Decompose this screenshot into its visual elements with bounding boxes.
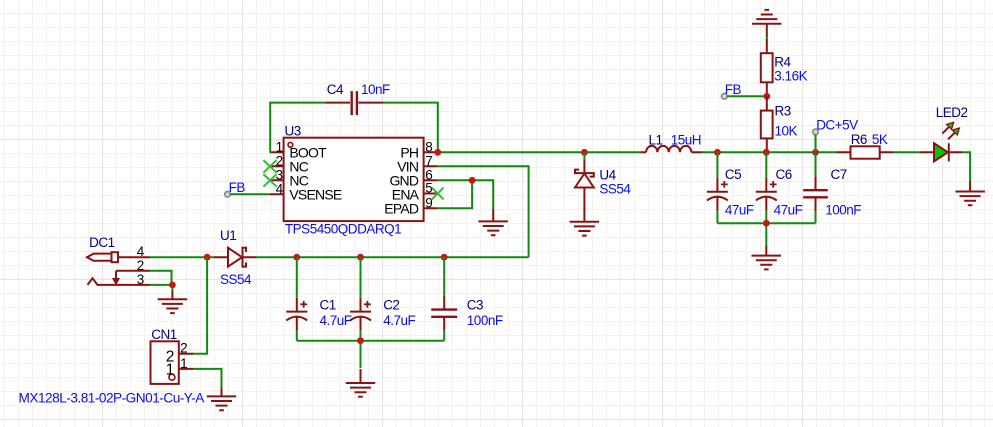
wire U4 to ground: [583, 152, 585, 160]
CN1 outer pin numbers: [180, 341, 187, 371]
wire DC1 pin2 down to pin3: [150, 271, 172, 285]
junction C5 top: [714, 149, 721, 156]
U3 right pin stubs 8,7,6,5,9: [424, 152, 438, 208]
wire FB to R4/R3 node: [727, 95, 767, 97]
junction R3 bottom output node: [763, 149, 770, 156]
wire DC1 pin3 to ground node: [150, 285, 172, 293]
svg-text:VSENSE: VSENSE: [289, 187, 341, 203]
inductor L1 leads: [641, 151, 702, 153]
capacitor C6 polarized: [756, 178, 777, 211]
R3 reference label: [775, 104, 791, 119]
wire ground to R4: [766, 36, 768, 41]
diode U1 schottky cathode: [243, 248, 247, 267]
svg-text:4.7uF: 4.7uF: [320, 313, 352, 328]
capacitor C6 wires: [765, 152, 767, 223]
wire C4 left loop to BOOT: [270, 103, 326, 153]
L1 value label: [671, 133, 701, 148]
capacitor C5 wires: [716, 152, 718, 223]
C7 reference label: [831, 167, 847, 182]
junction U4 top: [581, 149, 588, 156]
svg-text:DC+5V: DC+5V: [816, 117, 858, 132]
LED2 emission arrows: [942, 122, 959, 139]
ground below U3: [478, 210, 508, 236]
svg-text:1: 1: [180, 356, 187, 371]
net port FB left: [225, 192, 231, 198]
wire input cap rail: [297, 341, 444, 368]
svg-text:10K: 10K: [775, 123, 798, 138]
svg-text:C2: C2: [383, 298, 399, 313]
C6 value label: [774, 202, 803, 217]
svg-text:3.16K: 3.16K: [774, 69, 807, 84]
CN1 inner pad numbers: [166, 348, 175, 378]
wire PH row to L1: [438, 151, 641, 153]
svg-text:3: 3: [137, 272, 144, 287]
svg-text:U3: U3: [285, 123, 301, 138]
junction output rail: [763, 220, 770, 227]
no-connect X pin5: [432, 188, 444, 200]
C2 value label: [383, 313, 415, 328]
capacitor C3: [431, 296, 457, 331]
capacitor C2 wires: [360, 257, 362, 341]
diode U4 leads: [583, 160, 585, 210]
svg-text:1: 1: [166, 361, 175, 378]
svg-text:8: 8: [425, 139, 432, 154]
LED2 leads: [920, 151, 962, 153]
net label FB left: [229, 180, 246, 195]
wire DC1 pin4 to U1: [150, 256, 214, 258]
net label FB right: [725, 82, 742, 97]
svg-text:100nF: 100nF: [825, 202, 861, 217]
junction input rail: [357, 337, 364, 344]
wire output cap rail: [717, 223, 815, 247]
diode U1 triangle: [228, 248, 242, 267]
DC1 switch arrow: [113, 271, 119, 284]
op-amp U3 body TPS5450: [284, 138, 424, 221]
svg-text:3: 3: [276, 167, 283, 182]
capacitor C4 leads: [325, 102, 383, 104]
DC1 reference label: [89, 235, 115, 250]
connector DC1 plug symbol: [87, 252, 118, 262]
no-connect X pin2: [263, 160, 276, 173]
junction DC1 pin4 node: [204, 254, 211, 261]
junction C1 top: [293, 254, 300, 261]
U4 value label: [599, 182, 631, 197]
R6 reference label: [851, 132, 867, 147]
ground U4: [570, 208, 600, 236]
CN1 value label: [19, 391, 205, 406]
U3 left pin stubs 1-4: [270, 152, 284, 194]
svg-text:TPS5450QDDARQ1: TPS5450QDDARQ1: [285, 222, 401, 237]
svg-text:100nF: 100nF: [467, 313, 503, 328]
U3 right pin names: [384, 145, 419, 217]
capacitor C5 polarized: [707, 178, 728, 211]
svg-text:1: 1: [276, 139, 283, 154]
C4 reference label: [327, 82, 344, 97]
wire DC+5V stub: [815, 135, 817, 153]
capacitor C7 wires: [815, 152, 817, 223]
inductor L1 humps: [646, 146, 691, 152]
svg-text:4: 4: [276, 181, 284, 196]
svg-text:5K: 5K: [872, 132, 888, 147]
svg-text:5: 5: [425, 181, 432, 196]
LED2 cathode bar: [948, 143, 950, 161]
svg-text:10nF: 10nF: [361, 82, 390, 97]
U3 value label: [285, 222, 401, 237]
svg-text:U1: U1: [220, 228, 236, 243]
svg-text:FB: FB: [725, 82, 742, 97]
wire LED2 to ground: [962, 152, 970, 182]
svg-text:7: 7: [425, 153, 432, 168]
R3 value label: [775, 123, 798, 138]
ground DC1: [158, 291, 188, 313]
diode U4 schottky cathode: [575, 170, 594, 177]
net port DC+5V: [813, 129, 819, 135]
svg-text:LED2: LED2: [936, 105, 968, 120]
svg-text:15uH: 15uH: [671, 133, 701, 148]
wire EPAD pin9 loop up: [438, 180, 473, 208]
DC1 pin2 lead: [116, 270, 150, 272]
junction DC1 pin3 node: [169, 282, 176, 289]
junction pin6/pin9: [469, 177, 476, 184]
net port FB right: [722, 94, 728, 100]
U1 reference label: [220, 228, 236, 243]
capacitor C1 polarized: [286, 298, 307, 331]
ground CN1: [207, 388, 236, 410]
svg-text:C4: C4: [327, 82, 344, 97]
capacitor C2 polarized: [350, 298, 371, 331]
C1 reference label: [320, 298, 336, 313]
wire GND pin6 to ground drop: [438, 180, 494, 210]
svg-text:47uF: 47uF: [725, 202, 754, 217]
junction PH pin8: [434, 149, 441, 156]
svg-text:C3: C3: [467, 298, 483, 313]
junction C2 top: [357, 254, 364, 261]
DC1 pin4 lead: [118, 256, 150, 258]
wire L1 to output node: [702, 151, 837, 153]
svg-text:C5: C5: [725, 167, 741, 182]
C5 value label: [725, 202, 754, 217]
U3 left pin names: [289, 145, 341, 203]
U3 left pin numbers: [276, 139, 284, 196]
svg-text:C1: C1: [320, 298, 336, 313]
net label DC+5V: [816, 117, 858, 132]
ground output caps: [752, 246, 782, 269]
no-connect X pin3: [263, 174, 276, 187]
capacitor C7: [803, 176, 828, 211]
svg-text:47uF: 47uF: [774, 202, 803, 217]
C5 reference label: [725, 167, 741, 182]
connector CN1 box: [151, 341, 179, 384]
wire CN1 pin2 riser: [194, 257, 207, 354]
resistor R3: [761, 96, 773, 152]
capacitor C1 wires: [296, 257, 298, 341]
DC1 sleeve zigzag: [88, 278, 151, 285]
L1 reference label: [649, 133, 663, 148]
C4 value label: [361, 82, 390, 97]
svg-text:9: 9: [425, 195, 432, 210]
ground LED2: [955, 181, 985, 205]
DC1 pin numbers: [137, 244, 145, 287]
svg-text:R6: R6: [851, 132, 867, 147]
diode U4 triangle: [575, 174, 594, 188]
CN1 pin1 circle: [169, 374, 175, 380]
junction C3 top: [441, 254, 448, 261]
U3 reference label: [285, 123, 301, 138]
wire C4 right loop to PH: [383, 103, 438, 153]
C1 value label: [320, 313, 352, 328]
svg-text:CN1: CN1: [151, 327, 177, 342]
svg-text:SS54: SS54: [599, 182, 631, 197]
wire R6 to LED: [894, 151, 920, 153]
wire input rail U1 to VIN riser: [256, 256, 529, 258]
svg-text:C6: C6: [776, 167, 792, 182]
C2 reference label: [383, 298, 399, 313]
ground input caps: [346, 369, 375, 397]
resistor R4: [761, 39, 773, 96]
U3 right pin numbers: [425, 139, 432, 210]
svg-text:2: 2: [276, 153, 283, 168]
svg-text:FB: FB: [229, 180, 246, 195]
U3 pin1 indicator circle: [288, 142, 293, 147]
C6 reference label: [776, 167, 792, 182]
svg-text:SS54: SS54: [220, 272, 252, 287]
diode U1 leads: [214, 256, 256, 258]
U4 reference label: [599, 168, 616, 183]
resistor R6: [836, 146, 893, 158]
R4 reference label: [774, 54, 791, 69]
LED2 reference label: [936, 105, 968, 120]
C3 value label: [467, 313, 503, 328]
svg-text:DC1: DC1: [89, 235, 115, 250]
ground flipped above R4: [752, 10, 782, 38]
LED2 triangle: [934, 143, 948, 161]
C3 reference label: [467, 298, 483, 313]
capacitor C4 plates: [352, 91, 357, 115]
svg-text:4.7uF: 4.7uF: [383, 313, 415, 328]
svg-text:C7: C7: [831, 167, 847, 182]
junction C7 top: [812, 149, 819, 156]
wire FB to VSENSE: [230, 193, 269, 195]
capacitor C3 wires: [443, 257, 445, 341]
svg-text:2: 2: [137, 258, 144, 273]
U1 value label: [220, 272, 252, 287]
wire VIN riser: [438, 166, 529, 257]
CN1 pin stubs: [179, 354, 194, 369]
C7 value label: [825, 202, 861, 217]
svg-text:L1: L1: [649, 133, 663, 148]
svg-text:MX128L-3.81-02P-GN01-Cu-Y-A: MX128L-3.81-02P-GN01-Cu-Y-A: [19, 391, 205, 406]
CN1 reference label: [151, 327, 177, 342]
svg-text:R3: R3: [775, 104, 791, 119]
R6 value label: [872, 132, 888, 147]
wire CN1 pin1 to ground: [194, 369, 222, 390]
svg-text:EPAD: EPAD: [384, 201, 419, 217]
svg-text:4: 4: [137, 244, 145, 259]
svg-text:R4: R4: [774, 54, 791, 69]
junction R4/R3: [763, 93, 770, 100]
R4 value label: [774, 69, 807, 84]
svg-text:2: 2: [180, 341, 187, 356]
svg-text:U4: U4: [599, 168, 616, 183]
